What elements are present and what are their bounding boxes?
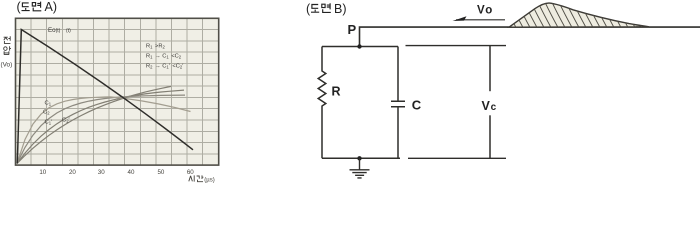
- svg-text:40: 40: [128, 169, 135, 176]
- ground: [350, 158, 370, 178]
- output pulse hump (hatched): [509, 3, 649, 27]
- resistor R (left branch): [318, 47, 326, 159]
- svg-text:R1 → C1 <C2: R1 → C1 <C2: [146, 53, 182, 59]
- svg-text:50: 50: [157, 169, 164, 176]
- svg-text:C2′: C2′: [62, 118, 70, 124]
- main discharge line Eo(t): [17, 30, 193, 164]
- Vc probe: top lead: [406, 45, 507, 47]
- curve C1 (fastest rise, flattens then sags): [17, 97, 191, 164]
- arrow for Vo (pointing left): [456, 19, 505, 21]
- svg-text:60: 60: [187, 169, 194, 176]
- svg-text:10: 10: [39, 169, 46, 176]
- Vc probe: lower vertical: [489, 115, 491, 158]
- svg-text:(µs): (µs): [204, 178, 214, 184]
- ground junction dot: [357, 156, 361, 160]
- hangul 도: [311, 5, 319, 13]
- svg-text:Vo: Vo: [477, 4, 492, 16]
- svg-text:30: 30: [98, 169, 105, 176]
- hangul 면: [322, 3, 331, 12]
- hangul gan: [197, 175, 204, 181]
- graph plot background (도면 A): [16, 18, 219, 165]
- svg-text:C1: C1: [45, 101, 52, 107]
- hangul si: [189, 175, 194, 181]
- svg-text:A): A): [45, 0, 58, 14]
- Vc probe: upper vertical: [489, 46, 491, 92]
- Vc probe: bottom lead: [408, 157, 506, 159]
- grid vertical lines: [31, 18, 203, 165]
- svg-text:P: P: [348, 22, 357, 37]
- svg-text:(: (: [306, 2, 311, 16]
- graph frame: [16, 18, 219, 165]
- hangul 면: [32, 2, 41, 11]
- svg-text:R: R: [332, 85, 341, 99]
- svg-text:(Vo): (Vo): [1, 62, 13, 69]
- curve C2' (slowest rise): [17, 86, 171, 163]
- curve C2: [17, 95, 185, 163]
- hangul 도: [22, 3, 30, 11]
- svg-text:(: (: [17, 0, 22, 14]
- hangul 전: [4, 36, 11, 43]
- svg-text:B): B): [334, 2, 347, 16]
- svg-text:R1 >R2: R1 >R2: [146, 43, 165, 49]
- hatch lines inside hump: [502, 0, 656, 28]
- x axis tick labels: [39, 169, 194, 176]
- x axis label 시간(us): [189, 175, 204, 181]
- y axis label 전압(Vo): [4, 36, 11, 54]
- svg-text:R2 → C1′ <C2′: R2 → C1′ <C2′: [146, 63, 183, 69]
- node P junction dot: [357, 44, 361, 48]
- curve C1': [17, 90, 184, 163]
- svg-text:20: 20: [69, 169, 76, 176]
- hangul 압: [4, 46, 11, 54]
- svg-text:Eo(t) (t): Eo(t) (t): [48, 27, 71, 34]
- svg-text:C1′: C1′: [45, 120, 53, 126]
- grid horizontal lines: [16, 30, 219, 154]
- svg-text:C2: C2: [43, 110, 50, 116]
- capacitor C (right branch of loop): [391, 47, 405, 159]
- wire: bottom rail of RC loop: [322, 157, 400, 159]
- svg-text:C: C: [412, 98, 422, 113]
- wire: long output line at top: [360, 27, 700, 46]
- wire: top rail of RC loop: [322, 46, 398, 48]
- svg-text:Vc: Vc: [482, 99, 497, 113]
